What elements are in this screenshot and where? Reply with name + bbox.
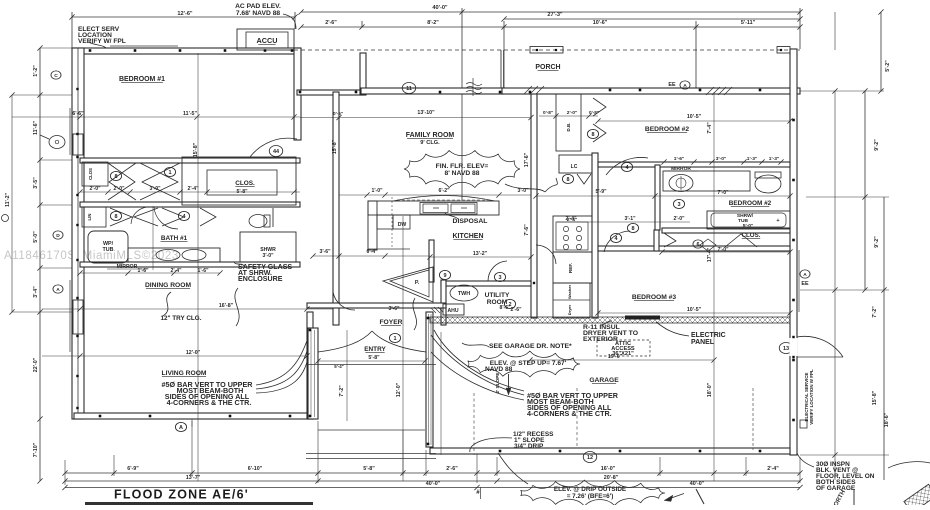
svg-text:VERIFY W/ FPL: VERIFY W/ FPL — [78, 38, 126, 45]
svg-text:D.B.: D.B. — [566, 123, 571, 132]
svg-text:5'-8": 5'-8" — [236, 189, 248, 195]
svg-text:A: A — [683, 83, 687, 89]
svg-text:CLOS: CLOS — [88, 168, 93, 180]
svg-text:5'-0": 5'-0" — [33, 231, 39, 243]
svg-text:10'-6": 10'-6" — [593, 20, 608, 26]
svg-text:7'-6": 7'-6" — [524, 224, 530, 236]
svg-text:3'-5": 3'-5" — [33, 177, 39, 189]
svg-text:AHU: AHU — [447, 308, 458, 314]
svg-text:3'-0": 3'-0" — [517, 188, 529, 194]
svg-text:8'-2": 8'-2" — [427, 20, 439, 26]
svg-text:8'-6": 8'-6" — [499, 305, 511, 311]
svg-text:UTILITY: UTILITY — [485, 292, 510, 299]
svg-text:C: C — [54, 73, 58, 79]
svg-text:7'-0": 7'-0" — [717, 247, 729, 253]
svg-text:6'-4": 6'-4" — [366, 249, 378, 255]
svg-text:2'-4": 2'-4" — [187, 186, 199, 192]
svg-text:Dryer: Dryer — [567, 304, 572, 315]
svg-text:2'-0": 2'-0" — [567, 110, 578, 116]
svg-text:1'-0": 1'-0" — [371, 188, 383, 194]
svg-text:11'-5": 11'-5" — [183, 111, 197, 117]
svg-text:LC: LC — [571, 164, 578, 170]
svg-text:5'-2": 5'-2" — [885, 60, 891, 72]
svg-text:5'-9": 5'-9" — [595, 189, 607, 195]
svg-text:+: + — [776, 218, 779, 224]
svg-text:11'-6": 11'-6" — [33, 120, 39, 135]
svg-text:4-CORNERS & THE CTR.: 4-CORNERS & THE CTR. — [527, 409, 612, 418]
svg-text:A: A — [56, 287, 60, 293]
svg-text:7'-0": 7'-0" — [717, 190, 729, 196]
svg-text:15'-8": 15'-8" — [332, 139, 338, 154]
svg-text:20'-8": 20'-8" — [604, 475, 619, 481]
svg-text:EE: EE — [668, 82, 676, 88]
svg-text:1: 1 — [393, 336, 396, 342]
svg-text:9: 9 — [443, 273, 446, 279]
svg-text:3'-4": 3'-4" — [33, 286, 39, 298]
svg-text:SEE GARAGE DR. NOTE*: SEE GARAGE DR. NOTE* — [489, 343, 572, 350]
svg-text:EXTERIOR: EXTERIOR — [583, 336, 618, 343]
svg-text:2'-0": 2'-0" — [89, 186, 101, 192]
svg-text:8: 8 — [114, 214, 117, 220]
svg-text:1'-6": 1'-6" — [197, 268, 209, 274]
svg-text:19'-6": 19'-6" — [608, 354, 623, 360]
svg-text:1'-3": 1'-3" — [769, 156, 780, 162]
svg-text:11'-2": 11'-2" — [5, 192, 11, 207]
svg-text:13'-7": 13'-7" — [186, 475, 201, 481]
svg-text:15'-8": 15'-8" — [872, 390, 878, 405]
svg-text:16'-8": 16'-8" — [219, 303, 234, 309]
svg-text:AC PAD ELEV.: AC PAD ELEV. — [235, 3, 281, 10]
svg-text:40'-0": 40'-0" — [690, 481, 705, 487]
svg-text:5'-11": 5'-11" — [741, 20, 756, 26]
svg-text:10'-5": 10'-5" — [687, 307, 702, 313]
svg-text:8: 8 — [566, 177, 569, 183]
svg-text:2'-6": 2'-6" — [325, 20, 337, 26]
svg-text:7.68' NAVD 88: 7.68' NAVD 88 — [236, 10, 281, 17]
svg-text:40'-0": 40'-0" — [432, 5, 448, 11]
svg-text:5'-8": 5'-8" — [368, 355, 380, 361]
svg-text:5'-4": 5'-4" — [334, 364, 343, 369]
svg-text:2'-4": 2'-4" — [170, 268, 182, 274]
svg-text:PORCH: PORCH — [535, 64, 560, 71]
svg-text:3'-6": 3'-6" — [319, 249, 331, 255]
svg-text:A11846170S_MiamiMLS©2023: A11846170S_MiamiMLS©2023 — [4, 250, 179, 262]
svg-text:A: A — [179, 425, 183, 431]
svg-text:3: 3 — [498, 275, 501, 281]
svg-text:17'-4": 17'-4" — [707, 247, 713, 262]
svg-text:15'-8": 15'-8" — [193, 142, 199, 157]
svg-text:17'-6": 17'-6" — [524, 152, 530, 167]
svg-text:6'-6": 6'-6" — [72, 111, 84, 117]
svg-text:1'-6": 1'-6" — [137, 268, 149, 274]
svg-text:12" TRY CLG.: 12" TRY CLG. — [161, 315, 202, 322]
svg-text:13'-10": 13'-10" — [417, 110, 435, 116]
svg-text:12'-0": 12'-0" — [396, 382, 402, 397]
svg-text:VERIFY LOCATION W FPL: VERIFY LOCATION W FPL — [809, 369, 814, 425]
svg-text:13: 13 — [783, 346, 789, 352]
svg-text:1'-2": 1'-2" — [33, 65, 39, 77]
svg-text:2'-6": 2'-6" — [510, 307, 522, 313]
svg-text:3/4" DRIP: 3/4" DRIP — [514, 443, 544, 450]
svg-text:9'-2": 9'-2" — [874, 139, 880, 151]
svg-text:1'-6": 1'-6" — [674, 156, 685, 162]
svg-text:PANEL: PANEL — [691, 339, 715, 346]
svg-text:BEDROOM #1: BEDROOM #1 — [119, 76, 165, 83]
svg-text:3'-0": 3'-0" — [716, 156, 727, 162]
svg-text:12: 12 — [587, 455, 593, 461]
svg-text:7'-2": 7'-2" — [872, 306, 878, 318]
svg-text:3'-1": 3'-1" — [624, 216, 636, 222]
svg-text:7'-10": 7'-10" — [33, 442, 39, 457]
svg-text:8: 8 — [631, 226, 634, 232]
svg-text:6: 6 — [696, 242, 699, 248]
svg-text:OF GARAGE: OF GARAGE — [816, 485, 856, 492]
svg-text:12'-6": 12'-6" — [177, 11, 193, 17]
svg-text:12'-0": 12'-0" — [186, 350, 201, 356]
svg-text:22'-0": 22'-0" — [33, 357, 39, 372]
svg-text:ACCU: ACCU — [257, 36, 278, 45]
svg-text:10'-5": 10'-5" — [687, 114, 702, 120]
svg-text:3'-0": 3'-0" — [262, 253, 274, 259]
svg-text:27'-3": 27'-3" — [547, 12, 563, 18]
svg-text:40'-0": 40'-0" — [426, 481, 441, 487]
svg-text:A: A — [803, 272, 807, 278]
svg-text:2'-4": 2'-4" — [767, 466, 779, 472]
svg-text:TUB: TUB — [102, 247, 113, 253]
svg-text:7'-4": 7'-4" — [707, 122, 713, 134]
svg-text:1'-3": 1'-3" — [747, 156, 758, 162]
svg-text:3'-6": 3'-6" — [388, 306, 400, 312]
svg-text:5'-8": 5'-8" — [363, 466, 375, 472]
svg-text:11: 11 — [406, 86, 412, 92]
svg-text:2' SLOPE: 2' SLOPE — [495, 373, 500, 394]
svg-text:16'-0": 16'-0" — [601, 466, 616, 472]
svg-text:EE: EE — [801, 281, 809, 287]
svg-text:2'-4": 2'-4" — [565, 216, 577, 222]
svg-text:1: 1 — [168, 170, 171, 176]
svg-text:FLOOD ZONE AE/6': FLOOD ZONE AE/6' — [114, 488, 249, 502]
svg-text:= 7.26' (BFE=6'): = 7.26' (BFE=6') — [567, 493, 614, 500]
svg-text:2'-0": 2'-0" — [673, 216, 685, 222]
svg-text:18'-0": 18'-0" — [707, 382, 713, 397]
svg-text:ENCLOSURE: ENCLOSURE — [238, 275, 283, 283]
svg-text:NAVD 88: NAVD 88 — [485, 366, 513, 373]
svg-text:2'-6": 2'-6" — [446, 466, 458, 472]
svg-text:6'-2": 6'-2" — [438, 188, 450, 194]
svg-text:44: 44 — [273, 149, 280, 155]
svg-text:ELEV. @ DRIP OUTSIDE: ELEV. @ DRIP OUTSIDE — [554, 486, 626, 493]
svg-text:ELECTRIC: ELECTRIC — [691, 332, 726, 339]
svg-text:D: D — [56, 233, 60, 239]
svg-text:8: 8 — [591, 132, 594, 138]
svg-text:7'-2": 7'-2" — [339, 385, 345, 397]
svg-text:13'-2": 13'-2" — [473, 251, 488, 257]
svg-text:6'-9": 6'-9" — [127, 466, 139, 472]
svg-text:Washer: Washer — [567, 284, 572, 299]
svg-text:P.: P. — [415, 280, 420, 286]
svg-text:8' NAVD 88: 8' NAVD 88 — [445, 170, 480, 177]
svg-text:LIN: LIN — [87, 214, 92, 221]
svg-text:9'-2": 9'-2" — [874, 236, 880, 248]
svg-text:FIN. FLR. ELEV=: FIN. FLR. ELEV= — [436, 163, 489, 170]
svg-text:REF.: REF. — [568, 263, 573, 273]
svg-text:0'-8": 0'-8" — [543, 110, 553, 115]
svg-text:DW: DW — [398, 222, 407, 228]
svg-text:6'-10": 6'-10" — [248, 466, 263, 472]
svg-text:3: 3 — [677, 202, 680, 208]
svg-text:4-CORNERS & THE CTR.: 4-CORNERS & THE CTR. — [167, 398, 252, 407]
svg-text:9' CLG.: 9' CLG. — [420, 140, 440, 146]
svg-text:5'-0": 5'-0" — [743, 223, 754, 229]
svg-text:18'-6": 18'-6" — [884, 412, 890, 427]
svg-text:TWH: TWH — [458, 291, 470, 297]
